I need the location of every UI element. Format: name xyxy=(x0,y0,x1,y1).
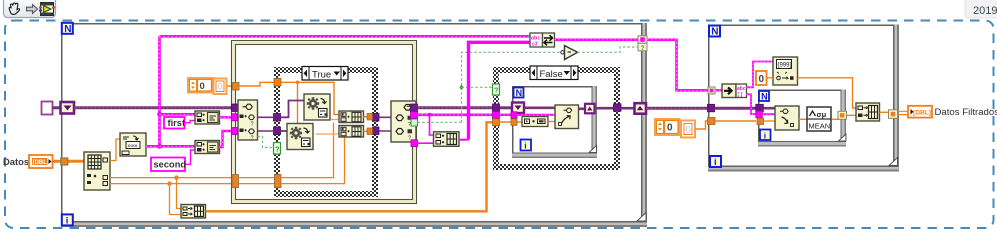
svg-text:0: 0 xyxy=(200,81,205,92)
spreadsheet string node xyxy=(120,133,146,156)
variant to data node xyxy=(722,84,747,98)
replace array node A xyxy=(339,111,364,123)
false tunnels left purple/magenta/orange xyxy=(493,104,500,112)
wires into array subset node xyxy=(764,107,776,110)
wire second to node B xyxy=(186,150,196,164)
build2 node xyxy=(434,132,460,147)
svg-text:{999}: {999} xyxy=(778,63,792,69)
N count terminal xyxy=(62,23,73,35)
purple into gear1 xyxy=(281,101,305,118)
svg-text:i: i xyxy=(714,157,717,168)
floop right tunnel up-arrow xyxy=(585,104,595,114)
build array node (bottom) xyxy=(181,205,206,219)
purple main mid xyxy=(418,106,497,109)
svg-text:False: False xyxy=(540,69,563,80)
false selector xyxy=(530,66,578,80)
rloop tunnels: magenta small / purple / orange xyxy=(708,87,715,94)
inner for loop (right) xyxy=(758,90,846,147)
purple main out xyxy=(411,104,418,112)
seq tunnel magenta row2 xyxy=(232,128,238,135)
magenta branch to node A xyxy=(160,113,196,116)
magenta thick riser to top node xyxy=(469,42,531,115)
irloop corner xyxy=(839,134,846,141)
long orange wire to false case xyxy=(206,122,497,211)
svg-text:?: ? xyxy=(251,122,254,128)
replace array node B xyxy=(339,126,364,138)
seq tunnel orange top-left xyxy=(233,83,240,91)
numeric constant 0 pale (right) xyxy=(681,121,695,138)
irloop N xyxy=(759,91,769,102)
green branch to false selector xyxy=(462,86,497,88)
orange wire datos xyxy=(53,160,85,163)
purple into gear2 xyxy=(281,130,288,132)
wire orange inside seq (top) xyxy=(239,82,274,86)
node B out hatched xyxy=(219,131,239,147)
wire 0s to loop tunnel xyxy=(696,121,709,129)
SECTION: false case structure xyxy=(493,67,620,170)
orange pair inside true case xyxy=(281,123,345,184)
node1 green out to selector xyxy=(258,137,274,148)
wire orange pair crossing seq gap xyxy=(239,178,276,184)
NOT gate triangle xyxy=(561,46,578,60)
search node B xyxy=(195,141,220,154)
rloop corner xyxy=(889,158,898,166)
hatched out of top node xyxy=(555,38,639,41)
wire 0 to node xyxy=(767,77,774,79)
floop small tunnels magenta/orange xyxy=(511,112,517,119)
gear node 1 xyxy=(304,94,330,120)
magenta branch to node B xyxy=(160,145,196,148)
svg-text:0: 0 xyxy=(667,123,673,134)
orange to build node xyxy=(847,114,857,116)
i iteration terminal xyxy=(62,214,73,226)
build2 node inputs xyxy=(430,115,434,135)
magenta hatched top trunk y36 xyxy=(160,35,531,38)
string/swap node top xyxy=(530,33,555,48)
purple row1 xyxy=(274,114,281,122)
loop resize corner xyxy=(637,213,646,222)
tunnel datos (big loop left) xyxy=(61,158,68,165)
wire arrsub out orange xyxy=(798,78,857,108)
wire orange idx out1 to string node xyxy=(110,139,120,161)
svg-text:True: True xyxy=(312,70,331,81)
node3 search/index (right of true case) xyxy=(391,101,416,142)
floop indexing tunnel purple xyxy=(512,103,524,114)
svg-text:MEAN: MEAN xyxy=(809,122,831,131)
unlabeled array control terminal xyxy=(42,102,53,115)
hand tool icon xyxy=(9,3,19,14)
out to floop right tunnel xyxy=(579,108,586,111)
node A out hatched xyxy=(220,116,239,118)
floop i xyxy=(521,140,532,151)
svg-text:?: ? xyxy=(251,136,254,142)
0 const in right loop xyxy=(756,71,767,85)
svg-text:N: N xyxy=(711,27,718,38)
right outer for loop frame xyxy=(708,25,899,172)
numeric constant 0 with increment (right) xyxy=(655,119,680,135)
svg-text:?: ? xyxy=(641,45,645,52)
svg-text:[DBL]: [DBL] xyxy=(33,160,49,166)
svg-text:c3: c3 xyxy=(532,42,538,48)
magenta hatched out of string node xyxy=(146,145,160,148)
selector ? tunnel xyxy=(274,143,281,155)
orange tunnel squares on case band xyxy=(367,114,373,121)
svg-text:N: N xyxy=(64,24,71,35)
inner for loop (false case) xyxy=(512,86,597,158)
Datos Filtrados [DBL] indicator xyxy=(908,106,932,118)
magenta riser x159 xyxy=(157,36,162,148)
svg-text:N: N xyxy=(761,92,768,102)
seq tunnel purple main xyxy=(232,104,239,112)
svg-text:i: i xyxy=(764,130,766,140)
array subset node (in irloop) xyxy=(775,106,799,130)
rloop N xyxy=(709,26,720,38)
svg-text:?: ? xyxy=(275,145,280,154)
second string constant xyxy=(151,158,186,172)
double orange wire to indicator xyxy=(898,111,909,114)
big loop right tunnel up-arrow xyxy=(635,103,647,114)
purple to big loop right tunnel xyxy=(621,107,635,110)
build array node (right) xyxy=(856,103,880,121)
seq right tunnels: green xyxy=(411,119,418,126)
floop N xyxy=(514,88,524,99)
rloop right tunnel orange xyxy=(889,110,898,119)
first string constant xyxy=(164,117,185,129)
purple segs to node3 xyxy=(379,117,391,131)
svg-text:0: 0 xyxy=(686,125,691,136)
svg-text:[ ]: [ ] xyxy=(738,92,743,98)
floop corner xyxy=(589,146,597,153)
false selector ? tunnel xyxy=(493,84,500,95)
gear node 2 xyxy=(287,124,313,150)
svg-text:first: first xyxy=(168,118,186,128)
irloop tunnels purple/magenta/orange xyxy=(756,104,764,112)
array subset {999} node xyxy=(773,57,798,85)
indexing tunnel (big loop left) xyxy=(61,102,75,114)
wire first to node A xyxy=(185,121,196,123)
purple wire to right loop xyxy=(647,107,709,110)
wires inside floop xyxy=(524,107,555,110)
sequence frame (double cream border) xyxy=(232,41,417,204)
svg-text:[DBL]: [DBL] xyxy=(913,110,931,117)
out build to rloop tunnel xyxy=(880,111,890,113)
purple to case right tunnel xyxy=(595,107,614,110)
false case right tunnel up-arrow xyxy=(614,104,622,112)
numeric constant 0 with increment (top) xyxy=(188,78,213,93)
svg-text:N: N xyxy=(516,88,523,98)
seq tunnel orange pair bottom xyxy=(232,175,239,188)
magenta out xyxy=(411,112,418,119)
index small node xyxy=(522,117,548,127)
case border checkered xyxy=(274,67,378,197)
svg-text:0: 0 xyxy=(759,74,765,85)
index array node xyxy=(84,152,110,190)
hatched zigzag to right loop xyxy=(647,40,708,91)
magenta riser from build2 node xyxy=(467,115,470,140)
MEAN node xyxy=(807,107,831,131)
junction dot + drop to build array input 2 xyxy=(167,181,171,185)
svg-text:σμ: σμ xyxy=(817,110,827,119)
v2d out up to array subset node xyxy=(747,62,774,88)
svg-text:0: 0 xyxy=(218,82,223,92)
big loop right tunnels magenta + green xyxy=(638,36,647,52)
search node A xyxy=(195,111,220,124)
magenta hatched mid xyxy=(418,112,497,119)
out to MEAN xyxy=(799,118,807,120)
rloop i xyxy=(710,156,721,168)
green riser xyxy=(462,52,563,122)
svg-text:second: second xyxy=(154,160,187,170)
VI run icon xyxy=(39,3,55,16)
toolbar palette box xyxy=(4,0,56,18)
case selector True xyxy=(302,67,348,81)
wire orange idx out3 xyxy=(110,183,233,185)
true case tunnels left: orange top xyxy=(274,79,281,87)
main purple wire trunk xyxy=(75,106,239,109)
wires into inner loop F xyxy=(500,106,513,109)
true case tunnels right: purple row1 xyxy=(373,114,380,122)
svg-text:i: i xyxy=(524,141,526,151)
svg-text:Datos Filtrados: Datos Filtrados xyxy=(935,107,997,118)
junction dot + drop to build array input 1 xyxy=(174,175,178,179)
green dashed from seq to riser xyxy=(418,121,462,123)
v2d out down to inner loop xyxy=(747,94,757,114)
irloop right tunnel orange xyxy=(838,111,847,119)
wires inside true case: orange top run xyxy=(281,82,339,123)
wire orange idx out2 xyxy=(110,177,233,179)
out MEAN to tunnel xyxy=(832,118,839,120)
svg-text:?: ? xyxy=(494,86,499,95)
wires inside right loop xyxy=(715,89,722,91)
wire purple in xyxy=(53,106,62,109)
Datos [DBL] control terminal xyxy=(29,155,53,168)
numeric constant 0 pale (top) xyxy=(214,79,227,95)
wire 0 to seq tunnel xyxy=(227,85,234,87)
purple row2 xyxy=(274,127,281,135)
svg-text:»»»: »»» xyxy=(128,144,139,150)
green out of NOT xyxy=(578,47,639,52)
array outs orange xyxy=(364,117,371,132)
purple row2 xyxy=(373,127,380,135)
build2 out to riser xyxy=(459,139,469,141)
node1 purple outs xyxy=(258,117,274,131)
arrow tool icon xyxy=(27,5,38,14)
node1 search/index (left of true case) xyxy=(238,100,258,142)
orange pair tall xyxy=(275,175,282,188)
gear outs orange xyxy=(331,119,342,121)
seq tunnel magenta row1 xyxy=(232,114,238,121)
irloop i xyxy=(760,130,771,141)
svg-text:2019: 2019 xyxy=(973,5,997,17)
svg-text:Datos: Datos xyxy=(3,156,29,167)
for loop frame xyxy=(61,23,647,227)
svg-text:i: i xyxy=(66,216,69,227)
rotate/subset node in floop xyxy=(555,105,579,129)
2019 version tab xyxy=(965,0,997,18)
